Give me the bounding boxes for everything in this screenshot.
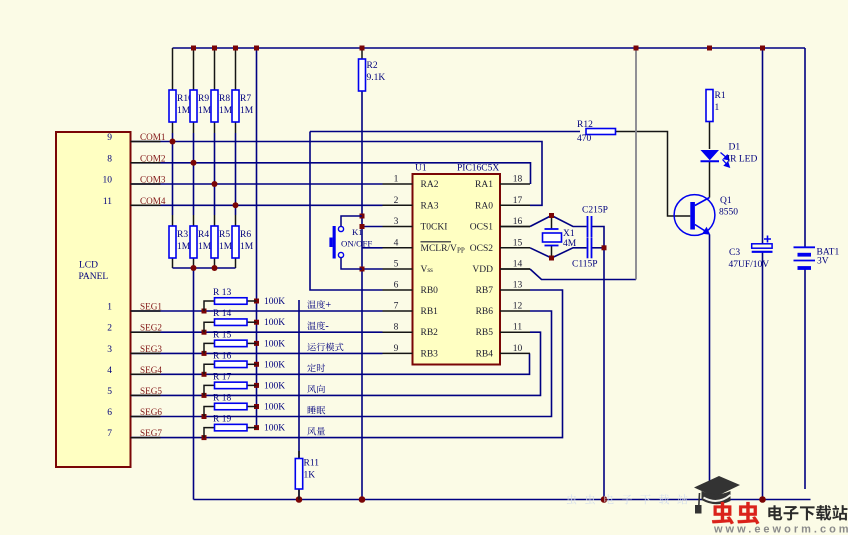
wire to pin3 T0CKI [362,226,383,228]
resistor R7 [232,90,239,122]
wire GND bottom rail [194,499,811,501]
svg-text:www.eeworm.com: www.eeworm.com [713,524,848,535]
node label 风向 [307,385,316,393]
pin 6 stub [383,289,413,291]
wire BAT1 bottom [804,269,806,489]
junction bus [191,265,197,271]
svg-text:100K: 100K [264,318,285,328]
svg-text:100K: 100K [264,297,285,307]
svg-text:6: 6 [107,408,112,418]
capacitor C2 215P [587,216,589,237]
junction pullup tap [254,383,259,388]
junction XTAL top [549,213,554,218]
svg-text:1M: 1M [198,106,212,116]
junction bottom rail [359,496,366,503]
LCD pin 8 stub [131,162,161,164]
svg-text:10: 10 [103,176,113,186]
svg-text:1: 1 [715,103,720,113]
wire COM4 to pin2 [131,204,383,206]
resistor R6 [232,226,239,258]
lead R15 left [204,343,215,353]
svg-text:Q1: Q1 [720,196,732,206]
logo chongchong red [712,502,734,524]
svg-text:R 16: R 16 [213,351,231,361]
wire R2/K1 column to GND [361,91,363,500]
wire col1 [172,133,174,215]
svg-text:R 19: R 19 [213,415,231,425]
svg-text:RB5: RB5 [476,328,494,338]
wire C115P right lead [592,247,604,249]
wire column R9/R4 down to GND [193,268,195,500]
lead top resistor col4 [235,48,237,133]
lead R2 top [361,48,363,59]
wire R3-R6 bottom bus [173,267,236,269]
pin 3 stub [383,226,413,228]
lead R11 bottom [298,489,300,500]
LCD pin 3 stub [131,352,161,354]
junction top rail [760,46,765,51]
resistor R13 [215,298,248,305]
svg-text:3: 3 [394,217,399,227]
svg-text:COM4: COM4 [140,196,166,206]
wire C215P right lead [592,227,604,248]
svg-text:+: + [325,300,331,311]
svg-text:17: 17 [513,196,523,206]
wire RB0 riser to R12 [310,132,383,291]
svg-text:100K: 100K [264,360,285,370]
junction SEG elbow [202,414,207,419]
svg-text:4M: 4M [563,239,577,249]
svg-text:SEG3: SEG3 [140,344,162,354]
junction top rail [233,46,238,51]
wire K1 top [341,216,362,226]
svg-text:R4: R4 [198,230,209,240]
svg-text:R8: R8 [219,94,230,104]
LCD pin 6 stub [131,416,161,418]
svg-text:18: 18 [513,175,523,185]
svg-text:3: 3 [107,345,112,355]
svg-text:1M: 1M [219,106,233,116]
battery BAT1 [794,247,816,268]
svg-text:4: 4 [394,238,399,248]
junction caps [602,245,607,250]
lead bottom resistor col2 [193,215,195,268]
wire R12 to Q1 base [616,132,691,217]
node label 定时 [307,364,316,372]
lead R17 left [204,385,215,395]
svg-text:2: 2 [394,196,399,206]
junction pullup tap [254,341,259,346]
junction COM1 [170,139,176,145]
resistor R3 [169,226,176,258]
lead R18 left [204,407,215,417]
junction top rail [634,46,639,51]
junction pin5 [360,267,365,272]
svg-text:VDD: VDD [472,265,493,275]
svg-text:7: 7 [394,302,399,312]
LCD pin 7 stub [131,437,161,439]
resistor R14 [215,319,248,326]
svg-text:X1: X1 [563,229,575,239]
svg-text:13: 13 [513,281,523,291]
svg-text:11: 11 [513,323,522,333]
svg-text:R 15: R 15 [213,330,231,340]
svg-text:OCS2: OCS2 [470,244,493,254]
svg-text:15: 15 [513,238,523,248]
svg-text:SEG5: SEG5 [140,386,162,396]
wire VDD riser gray [635,48,637,280]
junction K1 top [360,214,365,219]
svg-text:R1: R1 [715,91,726,101]
wire VDD top rail [173,47,806,49]
pin 14 stub [500,268,530,270]
pin 11 stub [500,331,530,333]
resistor R18 [215,403,248,410]
lead R13 right [247,300,257,302]
lead top resistor col2 [193,48,195,133]
junction bottom rail [296,496,303,503]
svg-text:100K: 100K [264,339,285,349]
svg-text:C115P: C115P [572,260,598,270]
wire col2 [193,133,195,215]
wire C3 top [762,48,764,244]
resistor R4 [190,226,197,258]
lead R11 top [298,451,300,459]
wire SEG3 to pin9 [131,352,383,354]
svg-text:C215P: C215P [582,206,608,216]
junction SEG elbow [202,372,207,377]
junction SEG elbow [202,393,207,398]
lead top resistor col3 [214,48,216,133]
junction pullup tap [254,404,259,409]
resistor R11 [295,459,302,490]
wire COM3 to pin1 [131,183,383,185]
svg-text:R2: R2 [367,61,378,71]
pin 16 stub [500,226,530,228]
svg-text:9.1K: 9.1K [367,73,386,83]
lead R19 right [247,427,257,429]
wire pullup column [256,48,258,428]
junction SEG elbow [202,309,207,314]
pin 1 stub [383,183,413,185]
crystal X1 [543,233,562,242]
wire R1 to LED [709,122,711,150]
svg-text:7: 7 [107,429,112,439]
svg-text:R11: R11 [304,459,320,469]
svg-text:R5: R5 [219,230,230,240]
capacitor C3 [752,244,772,248]
svg-text:1M: 1M [177,106,191,116]
logo graduation cap [694,476,740,514]
svg-text:1: 1 [107,303,112,313]
wire R11 column [298,300,300,500]
svg-text:OCS1: OCS1 [470,223,493,233]
LCD pin 1 stub [131,310,161,312]
pin 18 stub [500,183,530,185]
lead R14 left [204,322,215,332]
wire to C2 [552,216,587,227]
svg-text:Vss: Vss [421,265,434,275]
svg-text:PIC16C5X: PIC16C5X [457,164,499,174]
node label 睡眠 [308,406,316,414]
svg-text:1M: 1M [177,242,191,252]
node label 风量 [307,427,316,435]
svg-text:IR LED: IR LED [727,155,757,165]
resistor R8 [211,90,218,122]
pin 7 stub [383,310,413,312]
lead R15 right [247,342,257,344]
junction top rail [191,46,196,51]
svg-text:R7: R7 [240,94,251,104]
lead bottom resistor col1 [172,215,174,268]
resistor R15 [215,340,248,347]
svg-text:1: 1 [394,175,399,185]
LCD pin 11 stub [131,204,161,206]
wire col4 [235,133,237,215]
svg-text:LCD: LCD [79,261,98,271]
pin 9 stub [383,352,413,354]
wire caps to GND [603,248,605,500]
svg-text:8550: 8550 [719,208,738,218]
resistor R16 [215,361,248,368]
LCD pin 10 stub [131,183,161,185]
svg-text:9: 9 [107,133,112,143]
svg-text:COM3: COM3 [140,175,166,185]
svg-text:R 13: R 13 [213,288,231,298]
svg-text:T0CKI: T0CKI [421,223,448,233]
svg-text:5: 5 [107,387,112,397]
svg-text:RB0: RB0 [421,286,439,296]
svg-text:SEG7: SEG7 [140,428,162,438]
wire R12 left lead [310,131,580,133]
LCD pin 5 stub [131,394,161,396]
wire COM1 to pin17 [131,142,543,206]
wire SEG5 to pin11 [131,332,541,395]
resistor R1 [706,90,713,122]
wire VDD run [530,269,636,280]
junction top rail [254,46,259,51]
junction COM4 [233,202,239,208]
junction top rail [212,46,217,51]
LCD pin 9 stub [131,141,161,143]
pin 2 stub [383,204,413,206]
svg-text:R 14: R 14 [213,309,231,319]
junction pin3 [360,224,365,229]
capacitor C1 15P [587,237,589,258]
svg-text:RB6: RB6 [476,307,494,317]
svg-text:SEG1: SEG1 [140,302,162,312]
wire LED to Q1 collector [709,162,711,198]
crystal top stub [551,216,553,230]
lead R14 right [247,321,257,323]
wire SEG6 to pin12 [131,311,552,417]
LCD pin 2 stub [131,331,161,333]
LCD panel [56,132,131,467]
svg-text:R 18: R 18 [213,394,231,404]
pin 5 stub [383,268,413,270]
resistor R9 [190,90,197,122]
wire BAT1 top [804,48,806,247]
pin 16 stub [500,226,530,228]
svg-text:100K: 100K [264,424,285,434]
svg-text:PANEL: PANEL [79,272,109,282]
svg-text:47UF/10V: 47UF/10V [729,260,770,270]
svg-text:5: 5 [394,260,399,270]
junction pullup tap [254,299,259,304]
svg-text:8: 8 [107,154,112,164]
junction bottom rail [759,496,766,503]
svg-text:1M: 1M [219,242,233,252]
lead R19 left [204,428,215,438]
LCD pin 4 stub [131,373,161,375]
lead R13 left [204,301,215,311]
wire pin16 diagonal [530,216,552,227]
resistor R5 [211,226,218,258]
wire to pin5 Vss [362,268,383,270]
pin 10 stub [500,352,530,354]
wire col3 [214,133,216,215]
svg-text:1M: 1M [240,106,254,116]
op-amp U1 PIC16C5X box [413,174,501,365]
junction bottom rail [706,496,713,503]
LED D1 [701,150,720,160]
svg-text:RA0: RA0 [475,201,493,211]
wire COM2 to pin18 [131,163,531,184]
svg-text:RB3: RB3 [421,349,439,359]
svg-text:RA2: RA2 [421,180,439,190]
watermark ghost [567,494,576,504]
svg-text:4: 4 [107,366,112,376]
pin 14 stub [500,268,530,270]
junction SEG elbow [202,330,207,335]
svg-text:SEG4: SEG4 [140,365,162,375]
pin 12 stub [500,310,530,312]
junction top rail [707,46,712,51]
svg-text:12: 12 [513,302,523,312]
svg-text:R6: R6 [240,230,251,240]
svg-text:U1: U1 [415,164,427,174]
svg-text:1M: 1M [198,242,212,252]
svg-text:K1: K1 [352,227,363,237]
junction COM3 [212,181,218,187]
svg-text:100K: 100K [264,381,285,391]
lead top resistor col1 [172,48,174,133]
pin 13 stub [500,289,530,291]
node label 运行模式 [307,343,315,351]
svg-text:D1: D1 [729,143,741,153]
svg-text:1K: 1K [304,471,316,481]
lead R16 right [247,363,257,365]
svg-text:RB4: RB4 [476,349,494,359]
svg-text:RB7: RB7 [476,286,494,296]
svg-text:RA1: RA1 [475,180,493,190]
wire SEG4 to pin10 [131,353,530,374]
lead R18 right [247,406,257,408]
switch K1 [338,226,343,257]
svg-text:10: 10 [513,344,523,354]
svg-text:R9: R9 [198,94,209,104]
wire to C1cap [552,248,587,258]
resistor R17 [215,382,248,389]
svg-text:16: 16 [513,217,523,227]
logo site name [768,505,782,520]
svg-text:MCLR/VPP: MCLR/VPP [421,244,465,255]
svg-text:100K: 100K [264,403,285,413]
pin 17 stub [500,204,530,206]
svg-text:RB2: RB2 [421,328,439,338]
crystal bottom stub [551,246,553,259]
lead R17 right [247,384,257,386]
lead R16 left [204,364,215,374]
wire SEG2 to pin8 [131,331,383,333]
node label 温度- [307,322,316,330]
resistor R19 [215,424,248,431]
junction bus [212,265,218,271]
lead bottom resistor col3 [214,215,216,268]
lead bottom resistor col4 [235,215,237,268]
junction bottom rail [601,496,608,503]
transistor Q1 8550 [674,195,715,236]
pin 8 stub [383,331,413,333]
wire pin15 diagonal [530,248,552,258]
svg-text:COM1: COM1 [140,132,166,142]
pin 15 stub [500,247,530,249]
svg-text:COM2: COM2 [140,153,166,163]
svg-text:SEG6: SEG6 [140,407,162,417]
junction XTAL bottom [549,256,554,261]
wire to pin4 MCLR [362,247,383,249]
svg-text:SEG2: SEG2 [140,323,162,333]
wire SEG7 to pin13 [131,290,563,438]
junction pullup tap [254,425,259,430]
pin 15 stub [500,247,530,249]
junction COM2 [191,160,197,166]
wire K1 bottom [341,258,362,269]
resistor R2 [359,59,366,91]
svg-text:R3: R3 [177,230,188,240]
svg-text:ON/OFF: ON/OFF [341,239,372,249]
wire C3 bottom [762,252,764,500]
svg-text:8: 8 [394,323,399,333]
junction pullup tap [254,320,259,325]
wire SEG1 to pin7 [131,310,383,312]
junction SEG elbow [202,435,207,440]
svg-text:6: 6 [394,281,399,291]
resistor R12 [586,129,616,135]
junction top rail [360,46,365,51]
node label 温度+ [307,300,316,308]
svg-text:1M: 1M [240,242,254,252]
junction pullup tap [254,362,259,367]
svg-text:RA3: RA3 [421,201,439,211]
svg-text:3V: 3V [817,257,829,267]
svg-text:C3: C3 [729,248,740,258]
junction SEG elbow [202,351,207,356]
svg-text:R 17: R 17 [213,372,231,382]
svg-text:14: 14 [513,260,523,270]
wire Q1 emitter to GND [709,235,711,500]
svg-text:2: 2 [107,324,112,334]
svg-text:-: - [325,321,329,332]
svg-text:R12: R12 [577,120,593,130]
svg-text:11: 11 [103,197,112,207]
resistor R10 [169,90,176,122]
svg-text:470: 470 [577,134,592,144]
pin 4 stub [383,247,413,249]
svg-text:9: 9 [394,344,399,354]
svg-text:RB1: RB1 [421,307,439,317]
